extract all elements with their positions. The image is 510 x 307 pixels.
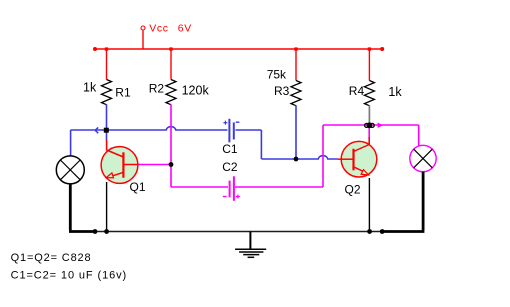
svg-text:1k: 1k: [83, 81, 97, 95]
svg-text:C2: C2: [222, 160, 238, 174]
svg-text:C1=C2= 10 uF (16v): C1=C2= 10 uF (16v): [11, 269, 127, 281]
svg-text:Q2: Q2: [345, 182, 361, 196]
svg-text:Q1=Q2= C828: Q1=Q2= C828: [11, 252, 92, 264]
svg-text:R2: R2: [149, 82, 165, 96]
svg-text:1k: 1k: [388, 85, 402, 99]
svg-text:75k: 75k: [267, 68, 287, 82]
svg-text:R4: R4: [349, 84, 365, 98]
svg-text:R3: R3: [274, 84, 290, 98]
svg-text:Q1: Q1: [130, 180, 146, 194]
svg-text:Vcc: Vcc: [149, 23, 168, 35]
svg-text:C1: C1: [222, 142, 238, 156]
svg-text:R1: R1: [115, 86, 131, 100]
svg-text:120k: 120k: [182, 84, 210, 98]
svg-text:6V: 6V: [178, 23, 192, 35]
